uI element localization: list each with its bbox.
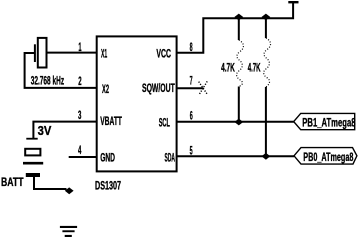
svg-text:SCL: SCL <box>159 116 170 130</box>
svg-text:4.7K: 4.7K <box>221 61 235 75</box>
svg-text:3: 3 <box>78 108 82 122</box>
svg-text:6: 6 <box>190 109 193 123</box>
svg-text:X2: X2 <box>102 82 109 96</box>
svg-text:1: 1 <box>78 40 81 54</box>
svg-text:8: 8 <box>190 40 193 54</box>
svg-text:DS1307: DS1307 <box>95 179 121 193</box>
svg-text:7: 7 <box>190 74 193 88</box>
svg-text:SDA: SDA <box>165 151 176 165</box>
svg-text:3V: 3V <box>38 123 52 138</box>
svg-text:BATT: BATT <box>1 175 24 189</box>
svg-text:32.768 kHz: 32.768 kHz <box>31 73 64 87</box>
svg-text:X1: X1 <box>101 47 107 61</box>
svg-text:4: 4 <box>78 143 82 157</box>
svg-text:PB0_ATmega8: PB0_ATmega8 <box>303 150 353 164</box>
svg-text:4.7K: 4.7K <box>248 61 261 75</box>
svg-text:SQW/OUT: SQW/OUT <box>142 81 175 95</box>
svg-text:5: 5 <box>190 144 193 158</box>
svg-text:VCC: VCC <box>156 47 171 61</box>
svg-text:PB1_ATmega8: PB1_ATmega8 <box>302 116 355 130</box>
svg-text:2: 2 <box>78 74 82 88</box>
svg-text:VBATT: VBATT <box>100 114 122 128</box>
svg-text:GND: GND <box>100 151 115 165</box>
